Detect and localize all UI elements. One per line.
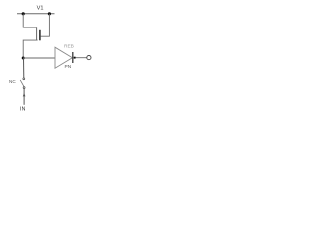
svg-text:IN: IN [20,107,26,113]
svg-text:PN: PN [65,64,72,70]
svg-text:REB: REB [64,44,74,50]
svg-text:NC: NC [9,79,16,84]
svg-text:V1: V1 [37,6,44,12]
